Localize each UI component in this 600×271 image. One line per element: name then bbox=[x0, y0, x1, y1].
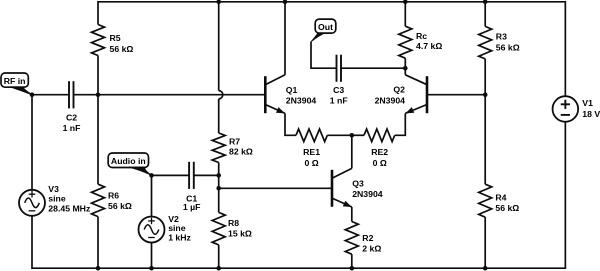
label flag "RF in" bbox=[1, 73, 32, 95]
node: RF line / R5-R6 junction bbox=[96, 92, 101, 97]
wire: RE1 to tail junction bbox=[327, 134, 352, 136]
svg-text:RF in: RF in bbox=[4, 76, 26, 86]
resistor RE1 (0 ohm) bbox=[296, 129, 327, 168]
wire: Q3 emitter down to R2 bbox=[351, 207, 353, 222]
svg-text:C3: C3 bbox=[333, 85, 344, 95]
svg-text:56 kΩ: 56 kΩ bbox=[496, 43, 520, 53]
wire: audio node to C1 bbox=[152, 174, 190, 176]
wire: audio node down to V2 bbox=[151, 175, 153, 216]
transistor Q2 (2N3904 NPN, mirrored) bbox=[375, 75, 427, 114]
node: R2 bottom on ground rail bbox=[350, 266, 355, 271]
node: Rc / C3 / Q2 collector junction bbox=[403, 66, 408, 71]
node: top rail / R7 column junction bbox=[216, 0, 221, 4]
svg-text:82 kΩ: 82 kΩ bbox=[229, 147, 253, 157]
svg-text:R7: R7 bbox=[229, 137, 240, 147]
wire: Q1 emitter down and over to RE1 bbox=[285, 113, 296, 135]
svg-text:1 nF: 1 nF bbox=[330, 96, 348, 106]
node: R8 bottom on ground rail bbox=[216, 266, 221, 271]
wire: bias junction to Q3 base junction bbox=[218, 175, 220, 188]
wire: right rail (top rail to V1) bbox=[564, 1, 566, 96]
svg-text:0 Ω: 0 Ω bbox=[304, 158, 318, 168]
svg-text:R3: R3 bbox=[496, 32, 507, 42]
resistor RE2 (0 ohm) bbox=[352, 129, 395, 168]
wire: RE2 up to Q2 emitter bbox=[395, 113, 406, 135]
wire: Q1 collector up to top rail bbox=[284, 2, 286, 75]
svg-text:18 V: 18 V bbox=[582, 109, 600, 119]
wire: V1 to bottom rail bbox=[564, 122, 566, 268]
wire: junction down to Q3 collector bbox=[351, 135, 353, 168]
node: V2 bottom on ground rail bbox=[149, 266, 154, 271]
node: R3 top on rail bbox=[483, 0, 488, 4]
svg-text:0 Ω: 0 Ω bbox=[373, 158, 387, 168]
node: R3/R4/Q2 base junction bbox=[483, 92, 488, 97]
svg-text:15 kΩ: 15 kΩ bbox=[228, 228, 252, 238]
resistor Rc (4.7 k&#937;) bbox=[399, 2, 443, 68]
wire: Q3 base wire bbox=[219, 187, 332, 189]
resistor R2 (2 k&#937;) bbox=[345, 222, 381, 269]
svg-text:C2: C2 bbox=[66, 112, 77, 122]
wire: left rail (RF node down to V3) bbox=[31, 95, 33, 190]
resistor R7 (82 k&#937;) bbox=[212, 133, 253, 175]
svg-text:4.7 kΩ: 4.7 kΩ bbox=[416, 41, 442, 51]
svg-text:Q2: Q2 bbox=[393, 85, 405, 95]
svg-text:2N3904: 2N3904 bbox=[352, 189, 383, 199]
svg-text:2N3904: 2N3904 bbox=[375, 96, 406, 106]
node: audio input node bbox=[149, 173, 154, 178]
wire: junction down to R8 bbox=[218, 188, 220, 212]
node: R4 bottom on ground rail bbox=[483, 266, 488, 271]
transistor Q3 (2N3904 NPN) bbox=[332, 168, 383, 207]
resistor R6 (56 k&#937;) bbox=[92, 95, 132, 269]
svg-text:1 kHz: 1 kHz bbox=[168, 233, 191, 243]
resistor R4 (56 k&#937;) bbox=[479, 95, 520, 269]
wire: V3 to bottom rail bbox=[31, 216, 33, 269]
svg-text:1 nF: 1 nF bbox=[63, 123, 81, 133]
svg-text:V3: V3 bbox=[48, 184, 59, 194]
transistor Q1 (2N3904 NPN) bbox=[265, 75, 316, 114]
svg-text:R8: R8 bbox=[228, 218, 239, 228]
node: RE1/RE2/Q3 collector junction bbox=[350, 133, 355, 138]
svg-text:56 kΩ: 56 kΩ bbox=[495, 203, 519, 213]
svg-text:28.45 MHz: 28.45 MHz bbox=[48, 203, 91, 213]
svg-text:Q1: Q1 bbox=[286, 85, 298, 95]
wire hop: R7 line jumps RF line bbox=[219, 91, 223, 99]
label flag "Out" bbox=[311, 19, 336, 42]
wire: Q2 base to R3/R4 junction bbox=[427, 94, 485, 96]
svg-text:2 kΩ: 2 kΩ bbox=[362, 243, 381, 253]
node: RF input node bbox=[30, 92, 35, 97]
svg-text:2N3904: 2N3904 bbox=[286, 96, 317, 106]
svg-text:R2: R2 bbox=[362, 233, 373, 243]
svg-text:1 µF: 1 µF bbox=[183, 202, 201, 212]
wire: hop down to R7 bbox=[218, 99, 220, 133]
resistor R5 (56 k&#937;) bbox=[92, 1, 134, 95]
node: C1 / R7 bias junction bbox=[216, 173, 221, 178]
wire: ground bottom rail bbox=[32, 267, 566, 269]
svg-text:Q3: Q3 bbox=[352, 179, 364, 189]
svg-text:Rc: Rc bbox=[416, 31, 427, 41]
wire: Q2 collector up to collector node bbox=[404, 68, 406, 75]
wire: Out tap down and over to C3 bbox=[311, 42, 337, 68]
wire: C1 to bias node bbox=[194, 174, 219, 176]
capacitor C2 (1 nF) bbox=[63, 81, 81, 133]
resistor R8 (15 k&#937;) bbox=[212, 212, 252, 268]
wire: RF node to C2 bbox=[32, 94, 69, 96]
svg-text:R6: R6 bbox=[108, 190, 119, 200]
node: Q1 collector on top rail bbox=[283, 0, 288, 4]
svg-text:RE1: RE1 bbox=[303, 147, 320, 157]
wire: C2 to Q1 base (RF line) bbox=[74, 94, 266, 96]
svg-text:R5: R5 bbox=[110, 33, 121, 43]
voltage source V2 (sine 1 kHz) bbox=[139, 214, 192, 243]
node: R6 bottom on ground rail bbox=[96, 266, 101, 271]
wire: top rail down to crossover hop bbox=[218, 2, 220, 91]
svg-text:Audio in: Audio in bbox=[111, 156, 146, 166]
voltage source V1 (18 V DC) bbox=[553, 96, 600, 122]
wire: V+ top rail bbox=[98, 1, 565, 3]
svg-text:V1: V1 bbox=[582, 98, 593, 108]
svg-text:56 kΩ: 56 kΩ bbox=[108, 201, 132, 211]
svg-text:RE2: RE2 bbox=[371, 147, 388, 157]
node: Rc top on rail bbox=[403, 0, 408, 4]
svg-text:56 kΩ: 56 kΩ bbox=[110, 44, 134, 54]
svg-text:R4: R4 bbox=[495, 192, 506, 202]
resistor R3 (56 k&#937;) bbox=[479, 2, 520, 95]
svg-text:Out: Out bbox=[318, 22, 333, 32]
svg-text:sine: sine bbox=[48, 194, 66, 204]
node: Q3 base junction bbox=[216, 186, 221, 191]
capacitor C1 (1 uF) bbox=[183, 162, 201, 212]
capacitor C3 (1 nF) bbox=[330, 55, 348, 106]
label flag "Audio in" bbox=[108, 153, 151, 175]
wire: C3 to collector node bbox=[341, 67, 405, 69]
wire: V2 to bottom rail bbox=[151, 243, 153, 269]
voltage source V3 (sine 28.45 MHz) bbox=[19, 184, 91, 216]
